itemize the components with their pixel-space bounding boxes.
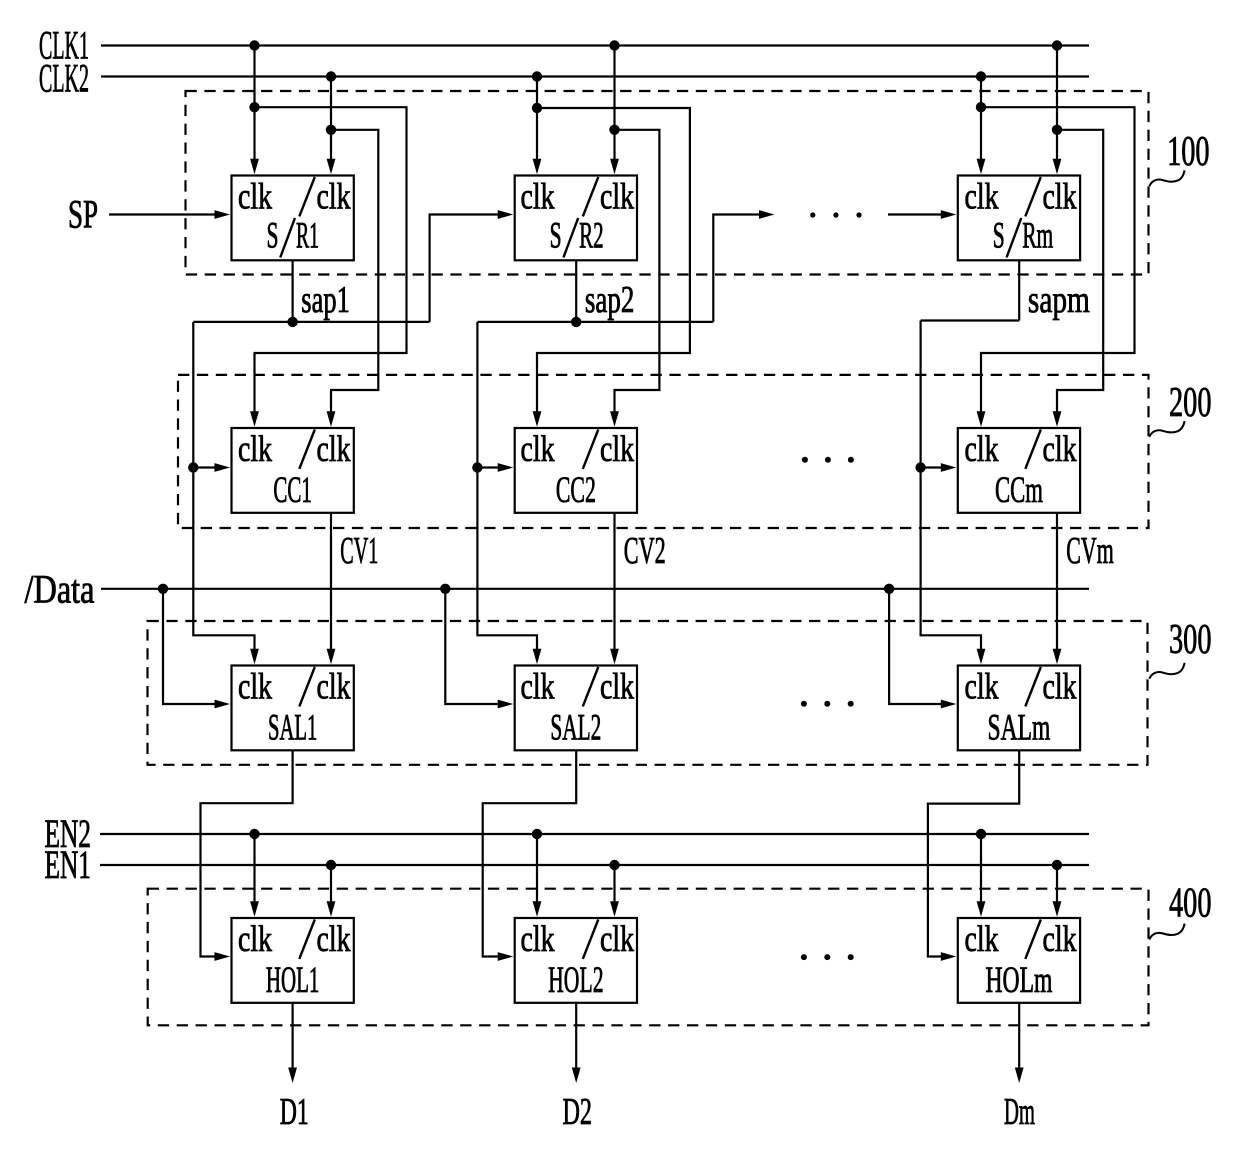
svg-text:clk: clk [317, 429, 351, 470]
block S/R2 [515, 176, 637, 261]
dashed box 300 (sampling latch stage) [148, 621, 1148, 765]
arrow CVm into SALm /clk [1053, 649, 1062, 665]
svg-text:clk: clk [1043, 919, 1077, 960]
wire sapm into CCm [921, 466, 943, 468]
junction dot sapm at CCm input [915, 462, 925, 472]
wire CVm from CCm to SALm [1056, 513, 1058, 651]
arrow CV1 into SAL1 /clk [327, 649, 336, 665]
svg-text:clk: clk [238, 429, 272, 470]
wire sap2 down to CC2 and SAL2 [477, 322, 537, 650]
wire clk branch to CC1 [255, 107, 407, 413]
junction dot clk tap col m on CLK2 [976, 71, 986, 81]
wire /Data into SAL1 [163, 589, 216, 704]
wire EN2 into HOL1 clk [253, 834, 255, 903]
arrow sap1 into CC1 [215, 463, 231, 472]
wire D1 output [292, 1003, 294, 1069]
wire SAL2 output to HOL2 [483, 750, 577, 956]
junction dot EN1 tap col 1 [326, 860, 336, 870]
junction dot clk tap col 2 on CLK2 [532, 71, 542, 81]
arrow into S/Rm [941, 210, 957, 219]
arrow /clk into CCm [1053, 411, 1062, 427]
svg-text:clk: clk [238, 666, 272, 707]
arrow /clk into S/R1 [327, 159, 336, 175]
junction dot sap1 [287, 317, 297, 327]
wire CLK1 bus [101, 44, 1089, 46]
junction dot EN2 tap col 1 [249, 829, 259, 839]
svg-text:clk: clk [521, 919, 555, 960]
svg-text:sap1: sap1 [301, 279, 350, 321]
junction dot /clk tap col m on CLK1 [1052, 40, 1062, 50]
arrow /clk into CC1 [327, 411, 336, 427]
ellipsis CC row [802, 457, 854, 463]
svg-text:sap2: sap2 [585, 279, 635, 321]
wire carry sap1 to S/R2 [430, 215, 500, 322]
svg-text:CV1: CV1 [340, 530, 378, 572]
arrow sap2 into SAL2 clk [533, 649, 542, 665]
leader squiggle 400 [1149, 924, 1184, 940]
junction dot EN1 tap col 2 [609, 860, 619, 870]
svg-text:clk: clk [521, 176, 555, 217]
svg-text:clk: clk [1043, 666, 1077, 707]
svg-text:clk: clk [317, 666, 351, 707]
block CC1 [232, 428, 354, 513]
arrow CV2 into SAL2 /clk [610, 649, 619, 665]
svg-text:400: 400 [1169, 881, 1212, 927]
arrow /Data into SAL2 [498, 700, 514, 709]
wire SP input [109, 213, 216, 215]
junction dot EN2 tap col 2 [532, 829, 542, 839]
svg-text:clk: clk [965, 919, 999, 960]
wire clk feed col 1 [253, 46, 255, 161]
wire CV2 from CC2 to SAL2 [613, 513, 615, 651]
svg-text:CC2: CC2 [556, 470, 596, 511]
svg-text:clk: clk [317, 176, 351, 217]
svg-text:S: S [993, 216, 1005, 257]
junction dot /Data tap col 1 [158, 584, 168, 594]
arrow Dm [1015, 1068, 1024, 1084]
svg-text:clk: clk [965, 429, 999, 470]
junction dot /clk branch col 2 [609, 125, 619, 135]
svg-text:SP: SP [68, 191, 98, 236]
svg-text:R1: R1 [296, 216, 319, 257]
svg-text:clk: clk [600, 176, 634, 217]
arrow sap2 into CC2 [498, 463, 514, 472]
svg-text:clk: clk [600, 429, 634, 470]
arrow carry into S/R2 [498, 210, 514, 219]
svg-text:D1: D1 [280, 1091, 309, 1133]
svg-text:D2: D2 [563, 1091, 593, 1133]
wire clk branch to CC2 [537, 108, 690, 413]
wire /clk feed col 1 [330, 77, 332, 161]
svg-text:clk: clk [238, 919, 272, 960]
dashed box 100 (shift register stage) [186, 91, 1149, 275]
junction dot /clk tap col 2 on CLK1 [609, 40, 619, 50]
svg-text:HOL2: HOL2 [548, 960, 603, 1001]
block CCm [958, 428, 1080, 513]
block SALm [958, 666, 1080, 751]
block HOLm [958, 918, 1080, 1003]
wire sapm horizontal run [921, 319, 1020, 321]
junction dot sap2 [571, 317, 581, 327]
arrow /clk into S/Rm [1053, 159, 1062, 175]
svg-text:HOLm: HOLm [985, 960, 1052, 1001]
svg-text:S: S [550, 216, 562, 257]
arrow clk into S/Rm [977, 159, 986, 175]
wire sap1 down to CC1 and SAL1 [193, 322, 254, 650]
svg-text:SAL1: SAL1 [268, 708, 317, 749]
wire /clk branch to CCm [1057, 130, 1103, 413]
svg-text:SAL2: SAL2 [550, 708, 601, 749]
arrow D2 [572, 1068, 581, 1084]
junction dot sap2 at CC2 input [472, 462, 482, 472]
block SAL2 [515, 666, 637, 751]
wire EN1 into HOL2 /clk [613, 865, 615, 903]
arrow SP into S/R1 [215, 210, 231, 219]
wire /clk feed col 2 [613, 46, 615, 161]
junction dot /clk branch col 1 [326, 125, 336, 135]
svg-text:S: S [266, 216, 278, 257]
wire CLK2 bus [101, 75, 1089, 77]
wire sap2 horizontal run [477, 321, 713, 323]
junction dot /clk tap col 1 on CLK2 [326, 71, 336, 81]
arrow clk into S/R2 [533, 159, 542, 175]
wire D2 output [575, 1003, 577, 1069]
wire sap1 from S/R1 output [292, 260, 294, 322]
dashed box 200 (charge control stage) [178, 375, 1149, 528]
wire EN2 bus [100, 833, 1089, 835]
junction dot /clk branch col m [1052, 125, 1062, 135]
wire EN2 into HOLm clk [980, 834, 982, 903]
arrow D1 [288, 1068, 297, 1084]
arrow /clk into CC2 [610, 411, 619, 427]
junction dot EN1 tap col m [1052, 860, 1062, 870]
ellipsis SAL row [801, 701, 854, 707]
wire /clk branch to CC1 [331, 130, 378, 413]
svg-text:Rm: Rm [1022, 216, 1053, 257]
block HOL1 [232, 918, 354, 1003]
arrow EN1 into HOL2 [610, 901, 619, 917]
junction dot clk branch col m [976, 102, 986, 112]
svg-text:clk: clk [600, 666, 634, 707]
wire sap1 into CC1 [193, 466, 216, 468]
wire EN1 bus [100, 864, 1089, 866]
arrow EN1 into HOLm [1053, 901, 1062, 917]
svg-text:CCm: CCm [995, 470, 1043, 511]
block SAL1 [232, 666, 354, 751]
arrow clk into CCm [977, 411, 986, 427]
wire sap2 from S/R2 output [575, 260, 577, 322]
svg-text:R2: R2 [579, 216, 604, 257]
svg-text:CV2: CV2 [624, 530, 666, 572]
svg-text:Dm: Dm [1004, 1091, 1035, 1133]
svg-text:clk: clk [317, 919, 351, 960]
wire ellipsis to S/Rm [888, 213, 942, 215]
wire SAL1 output to HOL1 [201, 750, 293, 956]
wire /Data into SAL2 [445, 589, 499, 704]
svg-text:300: 300 [1169, 617, 1212, 663]
wire CV1 from CC1 to SAL1 [330, 513, 332, 651]
arrow SAL1 output into HOL1 [215, 952, 231, 961]
arrow clk into CC1 [250, 411, 259, 427]
block CC2 [515, 428, 637, 513]
wire /Data into SALm [889, 589, 942, 704]
wire sapm down to CCm and SALm [921, 321, 981, 651]
wire sap2 into CC2 [477, 466, 499, 468]
junction dot clk branch col 2 [532, 103, 542, 113]
junction dot EN2 tap col m [976, 829, 986, 839]
wire SALm output to HOLm [928, 750, 1019, 956]
wire clk feed col m [980, 77, 982, 161]
svg-text:sapm: sapm [1028, 279, 1090, 321]
arrow EN2 into HOLm [977, 901, 986, 917]
arrow carry into ellipsis [759, 210, 775, 219]
leader squiggle 300 [1149, 663, 1184, 679]
junction dot sap1 at CC1 input [188, 462, 198, 472]
wire EN1 into HOLm /clk [1056, 865, 1058, 903]
svg-text:HOL1: HOL1 [266, 960, 320, 1001]
arrow sapm into SALm clk [977, 649, 986, 665]
arrow SAL2 output into HOL2 [498, 952, 514, 961]
arrow SALm output into HOLm [941, 952, 957, 961]
svg-text:clk: clk [1043, 176, 1077, 217]
wire EN2 into HOL2 clk [536, 834, 538, 903]
svg-text:clk: clk [1043, 429, 1077, 470]
svg-text:clk: clk [600, 919, 634, 960]
wire /clk branch to CC2 [615, 130, 660, 413]
svg-text:clk: clk [965, 666, 999, 707]
svg-text:CC1: CC1 [273, 470, 312, 511]
arrow EN2 into HOL1 [250, 901, 259, 917]
wire sap1 horizontal run [193, 321, 429, 323]
dashed box 400 (holding latch stage) [148, 889, 1149, 1026]
junction dot clk branch col 1 [249, 102, 259, 112]
ellipsis HOL row [801, 954, 854, 960]
junction dot /Data tap col 2 [440, 584, 450, 594]
wire sapm from S/Rm output [1018, 260, 1020, 320]
arrow sap1 into SAL1 clk [250, 649, 259, 665]
svg-text:clk: clk [238, 176, 272, 217]
svg-text:CVm: CVm [1066, 530, 1114, 572]
svg-text:/Data: /Data [25, 567, 95, 612]
wire EN1 into HOL1 /clk [330, 865, 332, 903]
svg-text:100: 100 [1167, 129, 1210, 175]
wire Dm output [1018, 1003, 1020, 1069]
wire clk branch to CCm [981, 107, 1135, 413]
svg-text:CLK2: CLK2 [39, 56, 89, 101]
svg-text:clk: clk [965, 176, 999, 217]
junction dot /Data tap col m [884, 584, 894, 594]
leader squiggle 100 [1149, 170, 1184, 186]
arrow clk into CC2 [533, 411, 542, 427]
svg-text:EN1: EN1 [45, 842, 92, 887]
wire /clk feed col m [1056, 46, 1058, 161]
wire /Data bus [101, 588, 1089, 590]
arrow EN1 into HOL1 [327, 901, 336, 917]
ellipsis S/R row [810, 212, 861, 217]
junction dot clk tap col 1 on CLK1 [249, 40, 259, 50]
svg-text:200: 200 [1169, 380, 1212, 426]
arrow /Data into SAL1 [215, 700, 231, 709]
wire clk feed col 2 [536, 77, 538, 161]
leader squiggle 200 [1149, 421, 1184, 437]
svg-text:SALm: SALm [988, 708, 1051, 749]
svg-text:clk: clk [521, 429, 555, 470]
block S/R1 [232, 176, 354, 261]
arrow EN2 into HOL2 [533, 901, 542, 917]
svg-text:clk: clk [521, 666, 555, 707]
arrow /Data into SALm [941, 700, 957, 709]
arrow clk into S/R1 [250, 159, 259, 175]
block S/Rm [958, 176, 1080, 261]
arrow /clk into S/R2 [610, 159, 619, 175]
arrow sapm into CCm [941, 463, 957, 472]
block HOL2 [515, 918, 637, 1003]
wire carry sap2 toward ellipsis [713, 215, 759, 322]
